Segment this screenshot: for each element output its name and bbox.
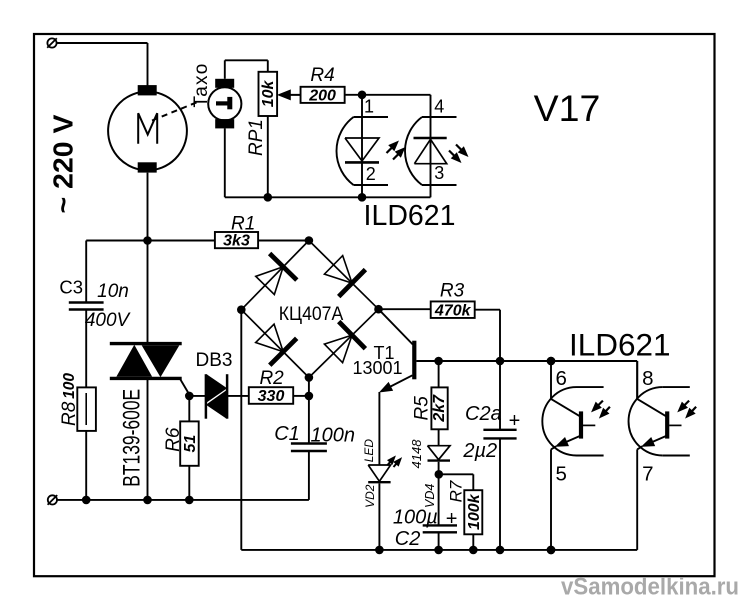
svg-text:4148: 4148	[409, 439, 424, 469]
svg-text:C1: C1	[274, 423, 300, 445]
svg-text:10n: 10n	[97, 281, 129, 302]
svg-text:V17: V17	[534, 87, 601, 129]
svg-text:R3: R3	[440, 281, 465, 302]
svg-text:+: +	[509, 410, 521, 432]
svg-text:8: 8	[642, 367, 653, 390]
svg-text:330: 330	[258, 388, 285, 405]
svg-text:КЦ407А: КЦ407А	[279, 303, 344, 325]
svg-text:100k: 100k	[466, 493, 483, 530]
svg-text:5: 5	[556, 463, 567, 486]
svg-text:vSamodelkina.ru: vSamodelkina.ru	[561, 574, 739, 601]
svg-text:ILD621: ILD621	[569, 326, 671, 362]
svg-text:100n: 100n	[311, 425, 356, 447]
svg-text:RP1: RP1	[246, 119, 267, 156]
svg-text:2: 2	[366, 164, 376, 184]
svg-text:VD4: VD4	[423, 484, 437, 508]
svg-text:C3: C3	[59, 277, 83, 298]
svg-text:R7: R7	[447, 480, 466, 502]
svg-text:+: +	[446, 508, 458, 530]
svg-text:~ 220 V: ~ 220 V	[48, 114, 79, 213]
svg-text:13001: 13001	[352, 358, 402, 378]
svg-text:100: 100	[61, 373, 78, 399]
svg-text:Taxo: Taxo	[191, 63, 212, 108]
svg-text:470k: 470k	[434, 302, 472, 319]
svg-text:C2: C2	[395, 528, 421, 550]
svg-text:3: 3	[434, 163, 444, 183]
svg-text:BT139-600E: BT139-600E	[118, 389, 145, 487]
svg-text:2k7: 2k7	[431, 394, 448, 423]
svg-text:2µ2: 2µ2	[462, 440, 497, 462]
svg-text:400V: 400V	[85, 310, 132, 331]
svg-text:R6: R6	[163, 427, 184, 452]
svg-text:ILD621: ILD621	[364, 200, 456, 232]
svg-text:R2: R2	[259, 368, 284, 389]
svg-text:51: 51	[182, 435, 199, 453]
svg-text:6: 6	[556, 367, 567, 390]
svg-text:R8: R8	[59, 401, 80, 426]
svg-text:C2a: C2a	[465, 403, 502, 425]
svg-text:R4: R4	[310, 65, 334, 86]
svg-text:3k3: 3k3	[223, 233, 250, 250]
svg-text:1: 1	[364, 97, 374, 117]
svg-text:100µ: 100µ	[393, 507, 438, 529]
svg-text:R5: R5	[412, 396, 433, 421]
svg-text:4: 4	[434, 97, 444, 117]
svg-text:7: 7	[642, 463, 653, 486]
svg-text:200: 200	[308, 87, 336, 104]
svg-text:LED: LED	[362, 439, 376, 463]
svg-text:10k: 10k	[260, 79, 277, 107]
svg-text:VD2: VD2	[363, 484, 377, 508]
svg-text:DB3: DB3	[196, 350, 233, 371]
